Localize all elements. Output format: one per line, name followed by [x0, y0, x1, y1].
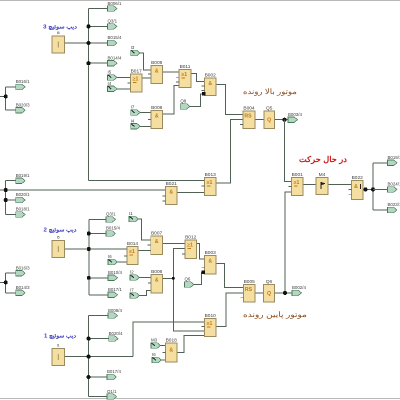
- or-gate B011: [176, 64, 191, 88]
- wire bus3 vertical: [88, 316, 90, 397]
- wire B005 out to Q6: [255, 292, 264, 294]
- svg-text:B013: B013: [205, 172, 217, 178]
- or-gate B013: [202, 172, 217, 196]
- svg-text:B004: B004: [243, 105, 255, 111]
- node left-bottom junction: [4, 280, 8, 284]
- output block Q5: [264, 105, 275, 128]
- svg-text:B011: B011: [180, 64, 191, 70]
- svg-text:≥1: ≥1: [207, 321, 213, 327]
- svg-text:B002/4: B002/4: [292, 285, 306, 290]
- connector ref B014/4: [108, 55, 122, 66]
- wire I1 to B007 in1: [138, 219, 151, 240]
- and-gate B022: [349, 175, 364, 200]
- svg-text:B001: B001: [292, 172, 304, 178]
- or-gate B012: [182, 234, 197, 258]
- svg-text:Q1/1: Q1/1: [107, 389, 117, 394]
- node bus2-B010 junction: [87, 276, 91, 280]
- top border line: [0, 0, 400, 2]
- wire bus1 to B013 in1: [89, 180, 205, 182]
- svg-text:Q8: Q8: [180, 99, 186, 104]
- wire B017 out to B009 in2: [142, 77, 151, 79]
- svg-text:B017/1: B017/1: [108, 287, 122, 292]
- svg-text:RS: RS: [244, 114, 252, 120]
- svg-text:&: &: [155, 278, 159, 284]
- svg-text:B005: B005: [244, 279, 256, 285]
- connector ref B003/4: [288, 112, 302, 123]
- svg-text:B003/4: B003/4: [288, 112, 302, 117]
- connector ref B019/1 (right): [388, 155, 400, 166]
- wire bus3 to B020/4 ref: [89, 338, 109, 340]
- and-gate B008: [148, 105, 163, 129]
- connector ref Q3/1 (bus2): [106, 212, 116, 223]
- wire bus1 to Q3/1 top: [89, 25, 108, 27]
- wire B007 out to B012 in1: [163, 242, 186, 244]
- connector input I3: [131, 45, 141, 56]
- wire B013 out to B004 in2: [216, 120, 243, 183]
- node bus3-B020 junction: [87, 337, 91, 341]
- svg-text:B006/1: B006/1: [108, 1, 122, 6]
- node left-mid junction1: [4, 188, 8, 192]
- wire B001 out to M4: [303, 183, 316, 185]
- and-gate B018: [163, 337, 178, 362]
- svg-text:B008: B008: [151, 105, 163, 111]
- connector input I4: [108, 81, 118, 92]
- wire bus1 to B014/4: [89, 62, 108, 64]
- svg-text:M3: M3: [151, 338, 158, 343]
- wire tap to B020/3 ref: [6, 109, 16, 111]
- wire input2 out across bus2 to B014 in1: [65, 248, 128, 250]
- node bus1-B015 junction: [87, 41, 91, 45]
- node left-mid junction2: [4, 198, 8, 202]
- svg-text:&: &: [208, 259, 212, 265]
- and-gate B003: [202, 250, 217, 274]
- connector ref B024/1: [388, 182, 400, 193]
- svg-text:B014/4: B014/4: [108, 55, 122, 60]
- rs-latch B004: [240, 105, 255, 128]
- svg-text:Q3/1: Q3/1: [106, 212, 116, 217]
- svg-text:&: &: [169, 190, 173, 196]
- svg-text:B014: B014: [127, 241, 139, 247]
- wire B011 out to B002 in1: [191, 74, 205, 82]
- wire B006 out to B012 in2 and B010 in3: [163, 249, 186, 279]
- wire to B019 ref: [373, 162, 388, 164]
- connector ref B020/3: [16, 102, 30, 113]
- and-gate B009: [148, 60, 163, 84]
- wire B009 out to B011 in1: [163, 71, 180, 73]
- connector ref B016/3: [16, 265, 30, 276]
- svg-text:B023/1: B023/1: [388, 202, 400, 207]
- svg-text:B012: B012: [185, 234, 197, 240]
- svg-text:I1: I1: [129, 211, 133, 216]
- svg-text:Q6: Q6: [185, 277, 191, 282]
- wire input1 out to bus1: [65, 42, 89, 44]
- node bus2-B015 junction: [87, 232, 91, 236]
- connector input I4 (to B008): [131, 119, 141, 130]
- connector input I5: [108, 70, 118, 81]
- connector ref B015/4 (bus1): [108, 35, 122, 46]
- wire bus1 vertical: [88, 9, 90, 181]
- connector ref B006/1: [108, 1, 122, 12]
- svg-text:B010/4: B010/4: [108, 270, 122, 275]
- node B006 branch junction: [172, 277, 175, 280]
- connector ref Q6 (to B003): [185, 277, 195, 288]
- svg-text:B020/1: B020/1: [16, 192, 30, 197]
- wire tap to B020/1 ref: [6, 199, 16, 201]
- output block Q6: [264, 279, 275, 302]
- svg-text:I6: I6: [108, 254, 112, 259]
- connector ref B015/4 (bus2): [106, 226, 120, 237]
- connector ref Q1/1: [107, 389, 117, 400]
- wire I5 to B017 in1: [116, 76, 131, 78]
- wire B001 in3 down to Q6 junction: [285, 192, 292, 293]
- connector ref B019/1 (left): [16, 173, 30, 184]
- wire bus3 to Q1/1 ref: [89, 396, 107, 398]
- svg-text:I5: I5: [108, 70, 112, 75]
- wire I4 to B017 in3: [116, 88, 131, 90]
- wire Q6b to B003 in4: [193, 273, 203, 285]
- svg-text:B018: B018: [166, 337, 178, 343]
- svg-text:B003: B003: [205, 250, 217, 256]
- connector input I6 (to B018): [152, 352, 162, 363]
- svg-text:B006: B006: [151, 269, 163, 275]
- svg-text:Q6: Q6: [266, 279, 273, 285]
- connector ref B020/4: [109, 331, 123, 342]
- flag block M4: [316, 172, 328, 195]
- wire B006 branch down to B010 in3: [173, 278, 204, 331]
- wire bus3 to B017/4 ref: [89, 376, 107, 378]
- wire bus2 to B010/4 ref: [89, 277, 108, 279]
- svg-text:I4: I4: [131, 119, 135, 124]
- wire B021 out to B013 in3: [177, 192, 205, 194]
- svg-text:B022: B022: [352, 175, 364, 181]
- wire left-top stub from edge: [0, 95, 6, 97]
- svg-text:&: &: [155, 239, 159, 245]
- wire B002 out to B004 in1: [216, 84, 243, 114]
- svg-text:B002: B002: [205, 72, 217, 78]
- wire B022 out to right bus: [363, 188, 373, 190]
- svg-text:I: I: [57, 41, 59, 50]
- svg-text:دیپ سوئیچ 2: دیپ سوئیچ 2: [43, 228, 77, 234]
- svg-text:B015/4: B015/4: [108, 35, 122, 40]
- wire I4b to B008 in3: [139, 125, 151, 127]
- wire left-mid cluster vertical: [5, 181, 7, 215]
- node left-top junction: [4, 94, 8, 98]
- node bus1-Q3 junction: [87, 24, 91, 28]
- node bus3-B017 junction: [87, 375, 91, 379]
- svg-text:&: &: [155, 114, 159, 120]
- svg-text:B014/3: B014/3: [16, 285, 30, 290]
- svg-text:I3: I3: [131, 45, 135, 50]
- svg-text:I: I: [57, 245, 59, 254]
- input block I2 (middle digital input): [52, 236, 65, 258]
- or-gate B017: [128, 68, 143, 92]
- svg-text:B020/3: B020/3: [16, 102, 30, 107]
- svg-text:Q: Q: [267, 291, 271, 297]
- svg-text:≥1: ≥1: [181, 72, 187, 78]
- connector input M3 (to B018): [151, 338, 161, 349]
- or-gate B001: [289, 172, 304, 196]
- svg-text:&: &: [354, 184, 358, 190]
- svg-text:B015/4: B015/4: [106, 226, 120, 231]
- wire left-bottom stub from edge: [0, 281, 6, 283]
- connector ref B023/1: [388, 202, 400, 213]
- connector ref B020/1: [16, 192, 30, 203]
- bottom border line: [0, 398, 400, 400]
- node B002 negated-input square: [202, 92, 205, 95]
- svg-text:≥1: ≥1: [294, 180, 300, 186]
- wire riser to B010 in1: [133, 322, 205, 357]
- wire tap to B016/1 ref: [6, 86, 16, 88]
- wire tap to B019/1 ref: [6, 180, 16, 182]
- node right bus junction: [371, 187, 375, 191]
- and-gate B021: [163, 181, 178, 205]
- connector ref Q3/1 (bus1): [108, 19, 118, 30]
- svg-text:B010: B010: [205, 313, 217, 319]
- node B003 negated-input square: [202, 271, 205, 274]
- wire M4 out to B022 in1: [328, 183, 352, 185]
- node bus2-out junction: [87, 247, 91, 251]
- wire M3 to B018 in1: [161, 345, 166, 347]
- svg-text:B009: B009: [151, 60, 163, 66]
- connector input I6 (to B014): [108, 254, 118, 265]
- and-gate B002: [202, 72, 217, 95]
- wire I7b to B006 in4: [138, 291, 151, 296]
- input block I6 (top digital input): [52, 31, 65, 53]
- svg-text:I6: I6: [152, 352, 156, 357]
- rs-latch B005: [241, 279, 256, 302]
- wire bus2 to B015/4 mid: [89, 233, 106, 235]
- svg-text:≥1: ≥1: [129, 249, 135, 255]
- node Q5 out junction: [283, 118, 287, 122]
- or-gate B010: [202, 313, 217, 337]
- connector ref B014/3: [16, 285, 30, 296]
- svg-text:&: &: [169, 348, 173, 354]
- wire bus2 vertical: [88, 219, 90, 294]
- connector ref Q8: [180, 99, 190, 110]
- svg-text:دیپ سوئیچ 3: دیپ سوئیچ 3: [43, 25, 78, 31]
- wire to B024 ref: [373, 188, 388, 190]
- connector input I7 (to B008): [131, 105, 141, 116]
- wire Q8 to B002 in4: [190, 94, 204, 106]
- svg-text:B008/4: B008/4: [108, 308, 122, 313]
- svg-text:&: &: [208, 81, 212, 87]
- node Q6 out junction: [283, 291, 287, 295]
- connector ref B018/1: [16, 207, 30, 218]
- wire to B023 ref: [373, 209, 388, 211]
- input block I1 (bottom digital input): [52, 344, 65, 366]
- svg-text:≥1: ≥1: [133, 77, 139, 83]
- wire I7 to B008 in1: [139, 112, 151, 114]
- wire B004 out to Q5: [255, 119, 264, 121]
- svg-text:B021: B021: [166, 181, 178, 187]
- svg-text:≥1: ≥1: [187, 243, 193, 249]
- svg-text:B018/1: B018/1: [16, 207, 30, 212]
- node bus1-B014 junction: [87, 61, 91, 65]
- wire B012 out to B003 in1: [197, 243, 205, 259]
- wire far-left mid to B021 in1: [0, 189, 166, 191]
- wire input3 out across bus3: [65, 356, 133, 358]
- svg-text:B019/1: B019/1: [16, 173, 30, 178]
- svg-text:B019/1: B019/1: [388, 155, 400, 160]
- wire I2 to B006 in1: [138, 277, 151, 279]
- wire right bus vertical: [372, 163, 374, 210]
- svg-text:&: &: [155, 69, 159, 75]
- svg-text:Q5: Q5: [266, 105, 273, 111]
- wire B010 out to B005 in2: [216, 293, 244, 327]
- svg-text:I: I: [57, 353, 59, 362]
- svg-text:RS: RS: [245, 287, 253, 293]
- wire I6 to B014 in3: [116, 261, 127, 263]
- wire left-bottom cluster vertical: [5, 273, 7, 293]
- svg-text:B024/1: B024/1: [388, 182, 400, 187]
- svg-text:Q3/1: Q3/1: [108, 19, 118, 24]
- wire I6c to B018 in3: [161, 359, 166, 361]
- wire bus1 to B015/4 top: [89, 42, 108, 44]
- connector input I7 (to B006): [130, 288, 140, 299]
- wire left-top cluster vertical: [5, 87, 7, 110]
- svg-text:I6: I6: [57, 31, 60, 35]
- wire I3 to B009 in1: [139, 53, 151, 70]
- svg-text:M4: M4: [319, 172, 326, 178]
- connector input I2 (to B006): [130, 270, 140, 281]
- wire tap to B014/3 ref: [6, 292, 16, 294]
- svg-text:I7: I7: [131, 105, 135, 110]
- or-gate B014: [124, 241, 138, 265]
- node B022 out junction: [364, 187, 368, 191]
- svg-text:B016/1: B016/1: [16, 79, 30, 84]
- wire B014 out to B007 in3: [138, 250, 151, 252]
- svg-text:B017: B017: [131, 68, 143, 74]
- wire tap to B018/1 ref: [6, 214, 16, 216]
- svg-text:موتور بالا رونده: موتور بالا رونده: [243, 87, 297, 96]
- connector ref B017/4: [107, 369, 121, 380]
- svg-text:≥1: ≥1: [207, 180, 213, 186]
- wire bus2 to B017/1 ref: [89, 294, 108, 296]
- node bus3-out junction: [87, 355, 91, 359]
- svg-text:I5: I5: [57, 236, 60, 240]
- connector ref B017/1: [108, 287, 122, 298]
- wire bus1 to B006/1: [89, 8, 108, 10]
- svg-text:موتور پایین رونده: موتور پایین رونده: [243, 310, 307, 319]
- wire Q5 junction down to B001 in1: [285, 120, 292, 182]
- wire B018 out to B010 in4: [177, 335, 205, 352]
- connector input I1: [129, 211, 139, 222]
- wire bus3 to B008/4 ref: [89, 315, 108, 317]
- svg-text:B007: B007: [151, 230, 163, 236]
- svg-text:I7: I7: [130, 288, 134, 293]
- svg-text:I4: I4: [108, 81, 112, 86]
- svg-text:Q: Q: [267, 118, 271, 124]
- svg-text:I1: I1: [57, 344, 60, 348]
- svg-text:در حال حرکت: در حال حرکت: [299, 155, 347, 165]
- and-gate B007: [148, 230, 163, 254]
- svg-text:B016/3: B016/3: [16, 265, 30, 270]
- svg-text:I2: I2: [130, 270, 134, 275]
- wire tap to B016/3 ref: [6, 272, 16, 274]
- connector ref B008/4: [108, 308, 122, 319]
- svg-text:B020/4: B020/4: [109, 331, 123, 336]
- wire B008 out to B011 in4: [163, 86, 180, 114]
- wire bus2 to Q3/1 mid: [89, 218, 106, 220]
- svg-text:B017/4: B017/4: [107, 369, 121, 374]
- svg-text:دیپ سوئیچ 1: دیپ سوئیچ 1: [44, 334, 77, 340]
- wire Q5 out to B003/4 ref: [275, 119, 289, 121]
- connector ref B002/4: [292, 285, 306, 296]
- wire Q6 out to B002/4 ref: [275, 292, 293, 294]
- connector ref B016/1: [16, 79, 30, 90]
- and-gate B006: [148, 269, 163, 293]
- wire B003 out to B005 in1: [216, 264, 244, 288]
- connector ref B010/4: [108, 270, 122, 281]
